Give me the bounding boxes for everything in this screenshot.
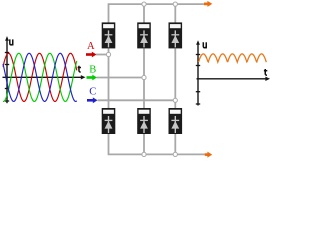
rectified output wave (orange) [198, 54, 266, 62]
arrow B [87, 75, 98, 81]
svg-text:C: C [89, 87, 96, 98]
right plot u-axis [196, 40, 200, 105]
leg2 wires [143, 4, 145, 154]
node B junction [142, 75, 146, 79]
arrow C [87, 97, 98, 103]
node A junction [106, 52, 110, 56]
output arrow + (top right) [204, 1, 212, 7]
wire phase C to leg3 [98, 99, 176, 101]
diode D2 (bottom leg3) [169, 108, 183, 134]
top rail junction leg3 [173, 2, 177, 6]
left plot u label [10, 39, 13, 45]
bottom rail wire [109, 134, 206, 154]
node C junction [173, 98, 177, 102]
output arrow - (bottom right) [205, 152, 212, 158]
diode D6 (bottom leg2) [137, 108, 151, 134]
svg-text:A: A [87, 41, 95, 52]
svg-text:B: B [89, 64, 96, 75]
right plot u label [203, 42, 206, 48]
diode D3 (top leg2) [137, 22, 151, 48]
left plot u-axis [5, 36, 9, 103]
top rail junction leg2 [142, 2, 146, 6]
wire phase B to leg2 [97, 77, 145, 79]
left plot t label [78, 66, 81, 72]
diode D4 (bottom leg1) [102, 108, 116, 134]
diode D1 (top leg1) [102, 22, 116, 48]
right plot t label [264, 69, 267, 75]
arrow A [86, 52, 97, 58]
leg1 mid wire [108, 49, 110, 109]
phase C sine wave (blue) [3, 53, 77, 101]
phase A sine wave (red) [3, 53, 77, 101]
leg3 wires [174, 4, 176, 154]
right plot t-axis [197, 77, 271, 81]
bottom rail junction leg3 [173, 152, 177, 156]
top rail wire [109, 4, 205, 22]
bottom rail junction leg2 [142, 152, 146, 156]
phase B sine wave (green) [3, 53, 77, 101]
left plot t-axis [3, 75, 86, 79]
diode D5 (top leg3) [169, 22, 183, 48]
wire phase A to leg1 [96, 54, 109, 56]
